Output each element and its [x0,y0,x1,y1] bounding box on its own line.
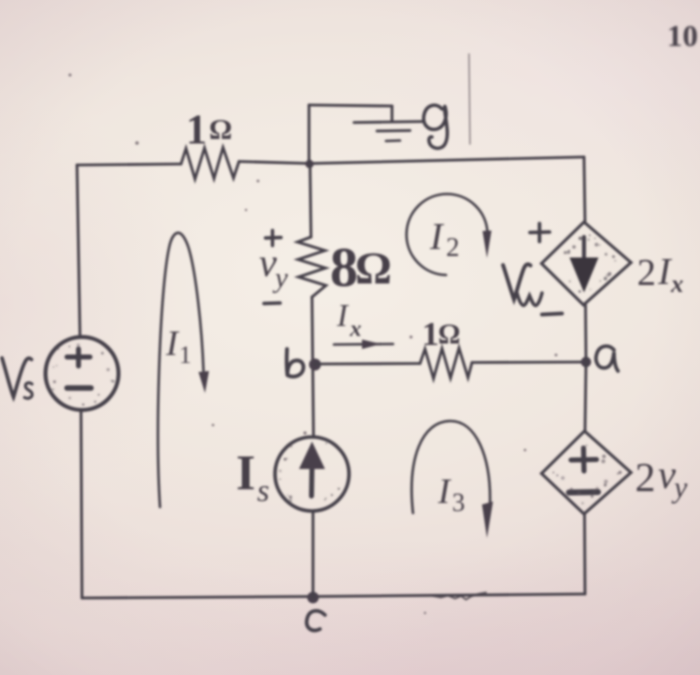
svg-text:I: I [236,444,255,500]
dependent source 2vy (diamond) [542,431,632,514]
svg-text:I: I [336,297,349,333]
label I3 [437,471,465,517]
wire node a to diamond2 [585,362,586,431]
node c dot [307,592,319,604]
svg-text:1: 1 [179,342,192,369]
photo dust specks [69,74,558,615]
resistor R1 1ohm (top) [181,148,239,180]
label vy minus [264,301,280,305]
label Vw minus [542,314,562,315]
svg-text:I: I [165,323,180,363]
wire top-left horizontal [77,164,181,165]
wire resistor to node a [472,361,586,364]
resistor R2 1ohm (middle) [420,348,472,379]
svg-text:10: 10 [667,18,698,53]
wire ground stub horizontal [309,105,392,106]
svg-text:2: 2 [635,454,656,500]
node label a (handwritten) [596,346,618,371]
svg-text:1: 1 [186,108,207,154]
label 2Ix [637,251,684,298]
label 1ohm (top) [186,108,232,154]
stray pencil line [469,54,470,144]
label I2 [429,216,460,262]
wire diamond2 to bottom right corner [583,514,586,594]
svg-text:8: 8 [330,237,358,299]
wire right vertical top [584,157,585,222]
svg-text:1: 1 [422,316,439,353]
node label c (handwritten) [307,611,325,631]
current source Is [275,437,349,511]
svg-text:Ω: Ω [355,243,392,294]
wire Is to c [312,511,315,597]
wire b to resistor [315,362,420,365]
svg-text:2: 2 [446,232,460,262]
label Vw plus [530,224,550,242]
node a dot [581,357,591,367]
mesh current I2 loop [407,194,492,275]
page number 10 [667,18,698,53]
svg-text:Ω: Ω [438,320,460,351]
label Is [236,444,269,508]
label 8ohm [330,237,392,299]
label I1 [165,323,192,369]
wire left vertical upper [77,165,80,337]
wire bottom [82,594,585,598]
label Ix [336,297,362,341]
wire ground stub vertical [308,105,311,164]
mesh current I3 loop [412,421,493,538]
wire bottom scribble [433,593,486,600]
ground symbol g [354,106,423,141]
node b dot [309,359,321,371]
svg-text:x: x [349,316,362,341]
label Vw (handwritten) [503,264,542,305]
label 1ohm (middle) [422,316,460,353]
label vy [259,240,288,294]
wire middle vertical upper [310,164,311,238]
wire top middle [239,162,310,164]
svg-text:Ω: Ω [209,114,232,146]
svg-text:y: y [671,471,688,504]
svg-text:3: 3 [452,488,465,517]
node label b (handwritten) [287,349,304,377]
arrow Ix [334,340,393,350]
label 2vy [635,452,688,504]
svg-text:I: I [437,471,452,511]
wire diamond1 to node a [584,305,587,362]
label vy plus [266,231,282,246]
svg-text:s: s [257,472,269,508]
label Vs (handwritten) [2,358,32,398]
source Vs (independent voltage source) [46,337,119,410]
mesh current I1 loop [158,233,209,507]
svg-text:x: x [670,271,684,298]
svg-text:I: I [429,216,445,258]
pencil texture speckles on sources [51,234,622,504]
wire top right [310,157,584,164]
node label g (handwritten) [424,105,448,148]
wire middle vertical (8ohm to b) [312,297,314,437]
junction dot top (ground stub) [305,160,313,168]
svg-text:2: 2 [637,252,656,294]
svg-text:y: y [272,262,288,294]
wire left vertical lower [81,410,82,598]
resistor R3 8ohm (vertical) [298,237,327,297]
dependent source 2Ix (diamond) [542,222,632,305]
